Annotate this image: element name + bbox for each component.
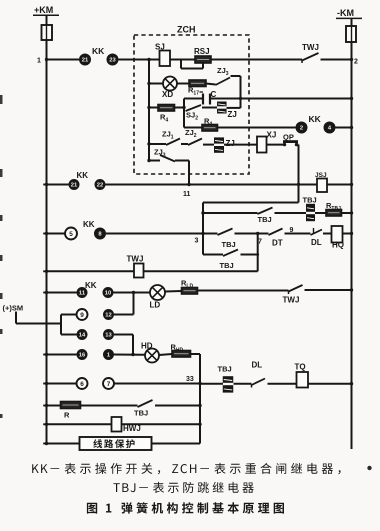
relay coil HWJ (112, 417, 122, 432)
wire row4 to LD (114, 292, 151, 294)
svg-text:16: 16 (79, 353, 86, 359)
svg-text:21: 21 (71, 183, 78, 189)
svg-text:TBJ: TBJ (303, 196, 317, 205)
wire rowC cap to x240 (210, 98, 241, 100)
wire TWJ coil to x257 (144, 270, 258, 272)
switch KK contact 12 (103, 309, 114, 320)
svg-text:2: 2 (300, 126, 303, 132)
wire vertical x298 down to row2 (298, 145, 300, 203)
wire TBJ contact to TBJ coil (275, 212, 307, 214)
wire HD to RHD (159, 354, 172, 355)
svg-text:R: R (64, 411, 70, 420)
switch KK contact 11 (77, 287, 88, 298)
svg-text:TWJ: TWJ (127, 255, 144, 264)
svg-text:ZJ: ZJ (228, 110, 237, 119)
svg-text:10: 10 (105, 291, 111, 297)
svg-text:TBJ: TBJ (134, 409, 148, 418)
svg-text:RSJ: RSJ (194, 47, 210, 56)
switch KK contact 21b (69, 179, 80, 190)
wire RTBJ to right bus (342, 212, 352, 214)
wire rowC left (184, 98, 203, 100)
svg-text:(+)SM: (+)SM (3, 304, 24, 313)
svg-text:7: 7 (107, 381, 111, 388)
wire R4b to KK contact 2 (218, 127, 296, 129)
wire RHD to x200 (191, 353, 201, 355)
wire rowD bus to R4 (149, 107, 158, 109)
wire drop x240 (240, 76, 242, 108)
wire vertical x184 (183, 99, 185, 128)
contact TBJ (row213) (258, 208, 273, 215)
wire rowB bus to XD (149, 83, 163, 85)
wire TWJ row left (47, 270, 135, 272)
wire row9 to x200 (155, 405, 200, 407)
svg-text:14: 14 (79, 333, 86, 339)
wire ZJ coil to x240 (227, 107, 241, 109)
contact TBJ (branch) (223, 250, 238, 257)
wire node33 to TBJ coil (200, 383, 223, 385)
switch KK contact 8 (94, 228, 106, 240)
wire 12 to x133 (114, 314, 134, 316)
resistor R17 (189, 80, 206, 87)
svg-text:2: 2 (354, 59, 358, 66)
wire row11 left (47, 443, 80, 445)
svg-text:11: 11 (79, 291, 86, 297)
switch KK contact 4 (324, 122, 336, 134)
wire row3 to node3 (106, 233, 218, 235)
wire x133 down to row7 (132, 335, 134, 355)
svg-text:KK: KK (83, 220, 95, 229)
wire branch right (241, 254, 258, 256)
wire XJ to QP (267, 144, 284, 146)
wire XD to R17 (177, 83, 189, 85)
switch KK contact 16 (77, 349, 88, 360)
svg-text:TWJ: TWJ (283, 296, 300, 305)
wire QP to vertical x298 (297, 144, 299, 146)
switch KK contact 7 (103, 378, 114, 389)
svg-text:9: 9 (80, 312, 84, 319)
wire x203 down to node3 (202, 203, 204, 234)
svg-text:HQ: HQ (332, 241, 344, 250)
wire TQ to right bus (308, 383, 352, 385)
svg-text:5: 5 (69, 231, 73, 238)
svg-text:DL: DL (311, 238, 322, 247)
svg-text:DL: DL (252, 361, 263, 370)
caption line 2 (113, 482, 253, 493)
closing coil HQ (332, 226, 343, 243)
svg-text:33: 33 (186, 376, 194, 383)
svg-text:DT: DT (272, 239, 283, 248)
wire rowE bus to ZJ1 (149, 143, 166, 145)
switch KK contact 22 (95, 179, 106, 190)
svg-text:TBJ: TBJ (258, 215, 272, 224)
wire TBJ to node7 (235, 233, 269, 235)
switch KK contact 1 (103, 349, 114, 360)
switch KK contact 9 (77, 309, 88, 320)
wire ZCH internal bus (148, 60, 150, 161)
wire SM to contact 9 (61, 314, 77, 316)
wire drop x189 to node11 (188, 161, 190, 185)
wire rowC out to right bus (241, 98, 352, 100)
wire row8 left (47, 383, 77, 385)
wire TBJ coil to DL (234, 383, 252, 385)
wire branch left (203, 254, 223, 256)
switch KK contact 5 (65, 228, 77, 240)
wire row8 to node33 (114, 383, 200, 385)
svg-text:QP: QP (283, 133, 294, 142)
relay coil ZJ (upper) (217, 102, 227, 107)
wire row7 left (47, 354, 77, 356)
svg-text:21: 21 (82, 58, 89, 64)
contact TWJ (bottom) (289, 285, 303, 292)
wire R to TBJ contact (81, 405, 138, 407)
signal lamp XD (163, 77, 177, 91)
wire SM to contact 14 (61, 334, 77, 336)
wire JSJ to right bus (328, 184, 352, 186)
wire TWJ contact to node2 (321, 59, 352, 61)
wire HWJ to x200 (122, 423, 201, 425)
wire SJ2 to ZJ coil (202, 107, 217, 109)
svg-text:TBJ: TBJ (220, 261, 234, 270)
resistor R4 (discharge) (202, 125, 218, 132)
wire RLD to TWJ contact (198, 290, 289, 292)
right bus wire (351, 42, 353, 449)
switch KK contact 13 (103, 329, 114, 340)
wire row4 left (47, 292, 77, 294)
wire 13 to x133 (114, 334, 133, 336)
wire LD to RLD (165, 290, 182, 293)
svg-text:22: 22 (97, 183, 103, 189)
svg-text:ZCH: ZCH (177, 25, 196, 35)
caption line 3 (figure title) (87, 502, 284, 513)
svg-text:HWJ: HWJ (123, 424, 141, 433)
wire x298 row2 to y202 (298, 185, 300, 203)
wire SJ to RSJ (170, 59, 195, 61)
wire row10 left (47, 423, 112, 425)
wire ZJ3 to drop (231, 75, 241, 77)
svg-text:9: 9 (290, 227, 294, 234)
svg-text:1: 1 (37, 58, 41, 65)
switch KK contact 10 (103, 287, 114, 298)
svg-text:TBJ: TBJ (218, 365, 232, 374)
wire x133 up to row4 (133, 293, 135, 315)
wire row7 to HD (114, 354, 145, 356)
svg-text:23: 23 (109, 58, 116, 64)
wire TBJ coil to RTBJ (315, 212, 326, 214)
wire row2 across (106, 184, 317, 186)
signal lamp LD (150, 285, 165, 300)
capacitor C (202, 94, 204, 105)
wire ZJ3b to x189 (175, 160, 189, 162)
wire rowF bus to ZJ3b (149, 160, 160, 162)
switch KK contact 23 (107, 54, 119, 66)
left bus wire (46, 40, 48, 444)
contact TBJ (row9) (138, 400, 153, 407)
wire SM bracket (60, 315, 62, 335)
wire row1 to SJ (119, 59, 160, 61)
edge marks (scan artifacts) (0, 95, 3, 104)
svg-text:TQ: TQ (295, 363, 306, 372)
wire row1 to TWJ contact (211, 59, 302, 61)
contact TBJ (row3) (218, 229, 233, 236)
contact SJ2 (186, 105, 202, 111)
wire R4 to junction (175, 107, 185, 109)
junction ticks on left bus (43, 184, 46, 186)
svg-text:11: 11 (183, 191, 191, 198)
relay coil ZJ (lower) (214, 137, 224, 143)
svg-text:XD: XD (162, 90, 173, 99)
wire x184 corner to R4b (184, 127, 202, 129)
resistor R (61, 402, 81, 409)
switch KK contact 14 (77, 329, 88, 340)
switch KK contact 6 (77, 378, 88, 389)
tap loop under RSJ (180, 60, 182, 69)
svg-text:12: 12 (105, 313, 111, 319)
junction x298 row2 (297, 183, 300, 186)
svg-text:XJ: XJ (267, 131, 277, 140)
svg-text:-KM: -KM (337, 8, 354, 18)
wire row1 left (47, 59, 80, 61)
svg-text:ZJ: ZJ (226, 139, 235, 148)
caption line 1 (32, 463, 340, 474)
resistor R4 (158, 105, 175, 112)
svg-text:LD: LD (150, 301, 161, 310)
svg-text:KK: KK (85, 281, 97, 290)
wire DT to node9 (285, 233, 311, 235)
wire row9 left (47, 405, 61, 407)
wire DL to TQ (268, 383, 297, 385)
switch KK contact 21 (79, 54, 91, 66)
switch KK contact 2 (296, 122, 308, 134)
svg-text:HD: HD (141, 342, 153, 351)
relay coil XJ (257, 137, 267, 153)
fuse RD2 on -KM rail (351, 18, 353, 26)
svg-text:KK: KK (77, 171, 89, 180)
line protection box (80, 437, 152, 450)
wire vertical x200 (199, 354, 201, 444)
svg-text:KK: KK (309, 114, 322, 124)
contact DT (269, 229, 283, 236)
wire SM lead (15, 312, 17, 324)
wire branch up to node7 (257, 234, 259, 272)
wire R17 to ZJ3 contact (206, 84, 216, 85)
svg-text:3: 3 (195, 238, 199, 245)
contact DL (row3) (311, 230, 323, 236)
wire row2 left (47, 184, 69, 186)
svg-text:6: 6 (80, 381, 84, 388)
svg-text:KK: KK (92, 46, 105, 56)
wire branch down from node3 (202, 234, 204, 255)
wire rowE out of box to XJ (224, 144, 257, 146)
svg-text:TWJ: TWJ (302, 43, 319, 52)
wire HQ to right bus (343, 233, 352, 235)
svg-text:+KM: +KM (34, 5, 53, 15)
wire y202 across to x203 (203, 202, 299, 204)
fuse RD1 on +KM rail (46, 15, 48, 25)
wire TWJ contact to right bus (305, 289, 352, 291)
svg-text:TBJ: TBJ (222, 240, 236, 249)
wire DL to HQ (323, 233, 332, 235)
svg-text:13: 13 (105, 333, 112, 339)
wire ZJ2 to ZJ coil (203, 144, 214, 146)
wire row11 to x200 (152, 443, 201, 445)
wire TBJ row from x203 (203, 212, 258, 214)
wire row3 left (47, 233, 66, 235)
wire KK4 to right bus (336, 127, 352, 129)
signal lamp HD (145, 349, 159, 363)
wire ZJ1-ZJ2 (181, 143, 188, 145)
